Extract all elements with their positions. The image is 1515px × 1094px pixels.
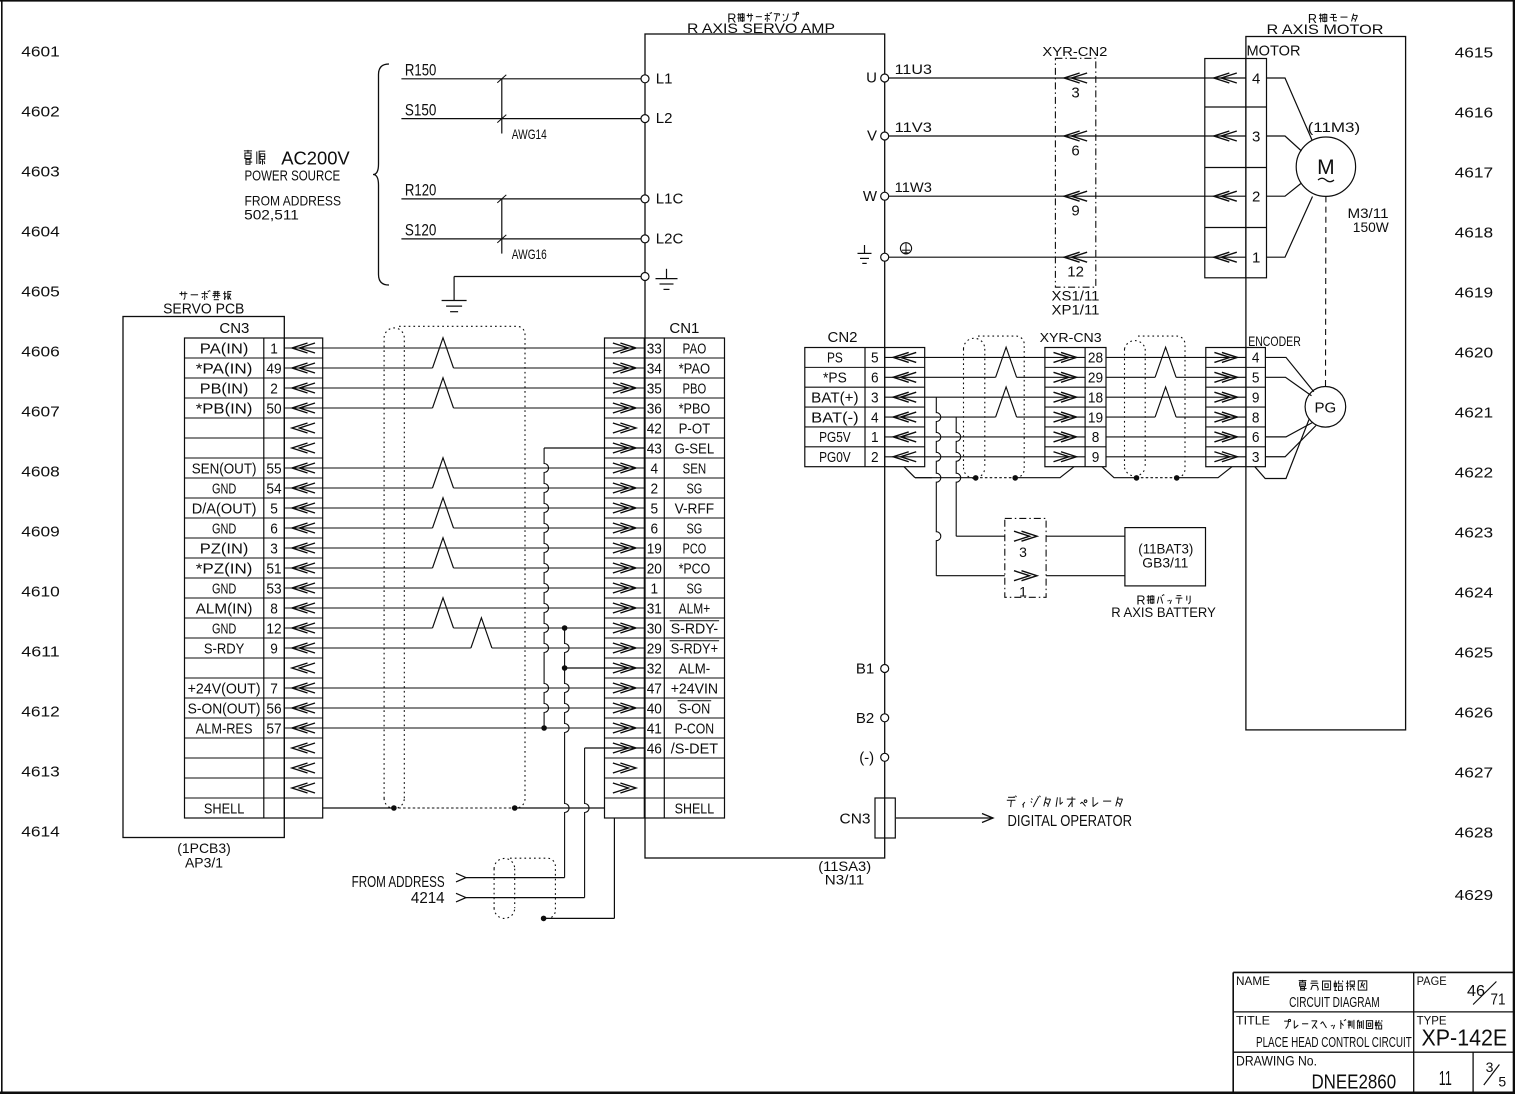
svg-text:40: 40 <box>647 701 662 717</box>
svg-text:AC200V: AC200V <box>281 147 350 168</box>
svg-text:B1: B1 <box>856 661 874 678</box>
svg-text:5: 5 <box>651 501 659 517</box>
svg-text:8: 8 <box>270 601 278 617</box>
svg-text:5: 5 <box>270 501 278 517</box>
svg-text:L1C: L1C <box>656 191 684 208</box>
svg-text:PG: PG <box>1315 399 1337 416</box>
svg-text:GND: GND <box>212 621 236 637</box>
svg-text:8: 8 <box>1252 410 1260 426</box>
svg-text:4626: 4626 <box>1455 705 1494 722</box>
svg-text:(-): (-) <box>859 750 874 767</box>
svg-text:9: 9 <box>1252 390 1260 406</box>
svg-text:1: 1 <box>270 341 278 357</box>
svg-text:R120: R120 <box>405 182 437 200</box>
svg-text:PLACE HEAD CONTROL CIRCUIT: PLACE HEAD CONTROL CIRCUIT <box>1256 1034 1412 1051</box>
svg-text:4214: 4214 <box>411 890 445 907</box>
svg-text:9: 9 <box>1092 450 1100 466</box>
svg-text:ALM-RES: ALM-RES <box>196 721 253 737</box>
svg-text:SHELL: SHELL <box>675 801 715 817</box>
svg-text:2: 2 <box>651 481 659 497</box>
svg-text:3: 3 <box>1486 1059 1494 1075</box>
svg-text:PB(IN): PB(IN) <box>200 381 249 397</box>
svg-text:31: 31 <box>647 601 662 617</box>
svg-text:AWG16: AWG16 <box>512 246 547 262</box>
svg-text:FROM ADDRESS: FROM ADDRESS <box>352 874 445 891</box>
svg-text:3: 3 <box>1252 450 1260 466</box>
svg-text:SG: SG <box>687 521 703 537</box>
svg-text:4612: 4612 <box>21 704 60 721</box>
svg-text:4623: 4623 <box>1455 525 1494 542</box>
svg-text:4620: 4620 <box>1455 345 1494 362</box>
svg-text:4605: 4605 <box>21 284 60 301</box>
svg-text:*PA(IN): *PA(IN) <box>196 361 253 377</box>
svg-text:PCO: PCO <box>683 541 707 557</box>
svg-text:*PBO: *PBO <box>679 401 711 417</box>
svg-text:29: 29 <box>647 641 662 657</box>
svg-text:D/A(OUT): D/A(OUT) <box>192 501 257 517</box>
svg-text:18: 18 <box>1088 390 1103 406</box>
svg-text:19: 19 <box>647 541 662 557</box>
svg-text:4624: 4624 <box>1455 585 1494 602</box>
svg-text:46: 46 <box>1467 983 1485 1000</box>
svg-text:56: 56 <box>266 701 281 717</box>
svg-text:S-RDY+: S-RDY+ <box>671 641 718 657</box>
svg-text:PZ(IN): PZ(IN) <box>200 541 249 557</box>
svg-text:51: 51 <box>266 561 281 577</box>
svg-text:4618: 4618 <box>1455 225 1494 242</box>
svg-text:U: U <box>866 70 877 87</box>
svg-text:AWG14: AWG14 <box>512 126 547 142</box>
svg-text:PS: PS <box>827 351 843 367</box>
svg-text:4629: 4629 <box>1455 887 1494 904</box>
svg-text:502,511: 502,511 <box>244 207 299 223</box>
svg-text:5: 5 <box>871 351 879 367</box>
svg-text:6: 6 <box>270 521 278 537</box>
svg-text:6: 6 <box>651 521 659 537</box>
svg-text:5: 5 <box>1252 371 1260 387</box>
svg-text:2: 2 <box>270 381 278 397</box>
svg-text:V: V <box>867 128 877 145</box>
svg-text:XP-142E: XP-142E <box>1422 1025 1508 1051</box>
svg-text:CIRCUIT DIAGRAM: CIRCUIT DIAGRAM <box>1289 994 1380 1011</box>
svg-text:4603: 4603 <box>21 164 60 181</box>
svg-text:11W3: 11W3 <box>895 179 932 195</box>
svg-text:50: 50 <box>266 401 281 417</box>
svg-text:9: 9 <box>270 641 278 657</box>
svg-text:(11M3): (11M3) <box>1308 119 1361 135</box>
svg-text:4613: 4613 <box>21 764 60 781</box>
svg-text:NAME: NAME <box>1236 976 1270 988</box>
svg-text:36: 36 <box>647 401 662 417</box>
svg-text:43: 43 <box>647 441 662 457</box>
svg-text:55: 55 <box>266 461 281 477</box>
svg-text:4607: 4607 <box>21 404 60 421</box>
svg-text:35: 35 <box>647 381 662 397</box>
svg-text:8: 8 <box>1092 430 1100 446</box>
svg-text:4604: 4604 <box>21 224 60 241</box>
svg-text:2: 2 <box>871 450 879 466</box>
svg-text:CN3: CN3 <box>840 810 871 827</box>
svg-text:TITLE: TITLE <box>1236 1016 1270 1028</box>
svg-text:11V3: 11V3 <box>895 119 932 135</box>
svg-text:PG0V: PG0V <box>819 450 851 466</box>
svg-text:9: 9 <box>1071 203 1079 220</box>
svg-text:28: 28 <box>1088 351 1103 367</box>
svg-text:*PB(IN): *PB(IN) <box>196 401 253 417</box>
svg-text:*PZ(IN): *PZ(IN) <box>196 561 253 577</box>
svg-text:3: 3 <box>1019 544 1027 560</box>
svg-text:XP1/11: XP1/11 <box>1052 302 1100 318</box>
svg-text:4: 4 <box>1252 70 1260 87</box>
svg-text:R AXIS BATTERY: R AXIS BATTERY <box>1111 604 1216 620</box>
svg-text:P-CON: P-CON <box>675 721 715 737</box>
svg-text:ALM(IN): ALM(IN) <box>196 601 253 617</box>
svg-text:4627: 4627 <box>1455 765 1494 782</box>
svg-text:SEN: SEN <box>683 461 707 477</box>
svg-text:41: 41 <box>647 721 662 737</box>
svg-text:BAT(-): BAT(-) <box>811 410 858 426</box>
svg-text:6: 6 <box>1071 143 1079 160</box>
svg-text:4610: 4610 <box>21 584 60 601</box>
svg-text:+24VIN: +24VIN <box>671 681 718 697</box>
svg-text:L2: L2 <box>656 110 673 127</box>
svg-text:4602: 4602 <box>21 104 60 121</box>
svg-text:150W: 150W <box>1353 219 1390 235</box>
svg-text:DIGITAL OPERATOR: DIGITAL OPERATOR <box>1008 813 1133 830</box>
svg-text:30: 30 <box>647 621 662 637</box>
svg-text:W: W <box>863 188 878 205</box>
svg-text:MOTOR: MOTOR <box>1247 43 1301 60</box>
svg-text:32: 32 <box>647 661 662 677</box>
svg-text:49: 49 <box>266 361 281 377</box>
svg-text:GND: GND <box>212 481 236 497</box>
svg-text:34: 34 <box>647 361 662 377</box>
svg-text:1: 1 <box>1252 250 1260 267</box>
svg-text:12: 12 <box>266 621 281 637</box>
svg-text:PAGE: PAGE <box>1417 976 1447 988</box>
svg-text:53: 53 <box>266 581 281 597</box>
svg-text:S-ON(OUT): S-ON(OUT) <box>188 701 261 717</box>
svg-text:CN1: CN1 <box>669 320 699 337</box>
svg-text:XYR-CN2: XYR-CN2 <box>1042 44 1107 59</box>
svg-text:G-SEL: G-SEL <box>675 441 715 457</box>
svg-text:5: 5 <box>1498 1074 1506 1090</box>
svg-text:4621: 4621 <box>1455 405 1494 422</box>
svg-text:7: 7 <box>270 681 278 697</box>
svg-text:4617: 4617 <box>1455 165 1494 182</box>
svg-text:54: 54 <box>266 481 281 497</box>
svg-text:DNEE2860: DNEE2860 <box>1311 1072 1396 1094</box>
svg-text:CN2: CN2 <box>828 329 858 346</box>
svg-text:12: 12 <box>1067 264 1084 281</box>
svg-text:SG: SG <box>687 481 703 497</box>
svg-text:6: 6 <box>871 371 879 387</box>
svg-text:POWER SOURCE: POWER SOURCE <box>245 168 341 185</box>
svg-text:4625: 4625 <box>1455 645 1494 662</box>
svg-text:4606: 4606 <box>21 344 60 361</box>
svg-text:PAO: PAO <box>683 341 707 357</box>
svg-text:1: 1 <box>871 430 879 446</box>
svg-text:4601: 4601 <box>21 44 60 61</box>
svg-text:71: 71 <box>1491 992 1506 1009</box>
svg-text:4628: 4628 <box>1455 825 1494 842</box>
svg-text:33: 33 <box>647 341 662 357</box>
svg-text:3: 3 <box>1252 128 1260 145</box>
svg-text:PA(IN): PA(IN) <box>200 341 249 357</box>
svg-text:ALM-: ALM- <box>679 661 711 677</box>
svg-text:R150: R150 <box>405 62 437 80</box>
svg-text:P-OT: P-OT <box>679 421 711 437</box>
svg-text:4: 4 <box>651 461 659 477</box>
svg-text:S-ON: S-ON <box>679 701 711 717</box>
svg-text:BAT(+): BAT(+) <box>811 390 858 406</box>
svg-text:AP3/1: AP3/1 <box>185 855 223 871</box>
svg-text:4614: 4614 <box>21 824 60 841</box>
svg-text:4608: 4608 <box>21 464 60 481</box>
svg-text:S150: S150 <box>405 101 437 119</box>
svg-text:M: M <box>1317 156 1335 179</box>
svg-text:42: 42 <box>647 421 662 437</box>
svg-text:29: 29 <box>1088 371 1103 387</box>
svg-text:S-RDY-: S-RDY- <box>671 621 719 637</box>
svg-text:SG: SG <box>687 581 703 597</box>
svg-text:ALM+: ALM+ <box>679 601 711 617</box>
svg-text:11U3: 11U3 <box>895 61 932 77</box>
svg-text:XYR-CN3: XYR-CN3 <box>1040 330 1102 345</box>
svg-text:*PCO: *PCO <box>679 561 711 577</box>
svg-text:3: 3 <box>270 541 278 557</box>
svg-text:DRAWING No.: DRAWING No. <box>1236 1052 1317 1068</box>
svg-text:47: 47 <box>647 681 662 697</box>
svg-text:1: 1 <box>651 581 659 597</box>
svg-text:SEN(OUT): SEN(OUT) <box>192 461 257 477</box>
svg-text:S120: S120 <box>405 222 437 240</box>
svg-text:1: 1 <box>1019 584 1027 600</box>
svg-text:V-RFF: V-RFF <box>675 501 715 517</box>
svg-text:GND: GND <box>212 581 236 597</box>
svg-text:SHELL: SHELL <box>204 801 245 817</box>
svg-text:4622: 4622 <box>1455 465 1494 482</box>
svg-text:4: 4 <box>1252 351 1260 367</box>
svg-text:57: 57 <box>266 721 281 737</box>
svg-text:L1: L1 <box>656 70 673 87</box>
svg-text:3: 3 <box>871 390 879 406</box>
svg-text:2: 2 <box>1252 189 1260 206</box>
svg-text:SERVO PCB: SERVO PCB <box>163 301 244 318</box>
svg-text:6: 6 <box>1252 430 1260 446</box>
svg-text:46: 46 <box>647 741 662 757</box>
svg-text:4: 4 <box>871 410 879 426</box>
svg-text:11: 11 <box>1439 1068 1452 1090</box>
svg-text:B2: B2 <box>856 710 874 727</box>
svg-text:GB3/11: GB3/11 <box>1142 554 1188 570</box>
svg-text:4616: 4616 <box>1455 105 1494 122</box>
svg-text:*PAO: *PAO <box>679 361 711 377</box>
svg-text:CN3: CN3 <box>219 320 249 337</box>
svg-text:L2C: L2C <box>656 231 684 248</box>
svg-text:ENCODER: ENCODER <box>1248 333 1301 349</box>
svg-text:4611: 4611 <box>21 644 60 661</box>
svg-text:PBO: PBO <box>683 381 707 397</box>
svg-text:R AXIS MOTOR: R AXIS MOTOR <box>1267 21 1384 37</box>
svg-text:PG5V: PG5V <box>819 430 851 446</box>
svg-text:20: 20 <box>647 561 662 577</box>
svg-text:*PS: *PS <box>823 371 847 387</box>
svg-text:3: 3 <box>1071 85 1079 102</box>
svg-text:19: 19 <box>1088 410 1103 426</box>
svg-text:4615: 4615 <box>1455 45 1494 62</box>
svg-text:N3/11: N3/11 <box>825 871 865 887</box>
svg-text:GND: GND <box>212 521 236 537</box>
svg-text:+24V(OUT): +24V(OUT) <box>188 681 261 697</box>
svg-text:4619: 4619 <box>1455 285 1494 302</box>
svg-text:S-RDY: S-RDY <box>204 641 245 657</box>
svg-text:/S-DET: /S-DET <box>671 741 718 757</box>
svg-text:4609: 4609 <box>21 524 60 541</box>
